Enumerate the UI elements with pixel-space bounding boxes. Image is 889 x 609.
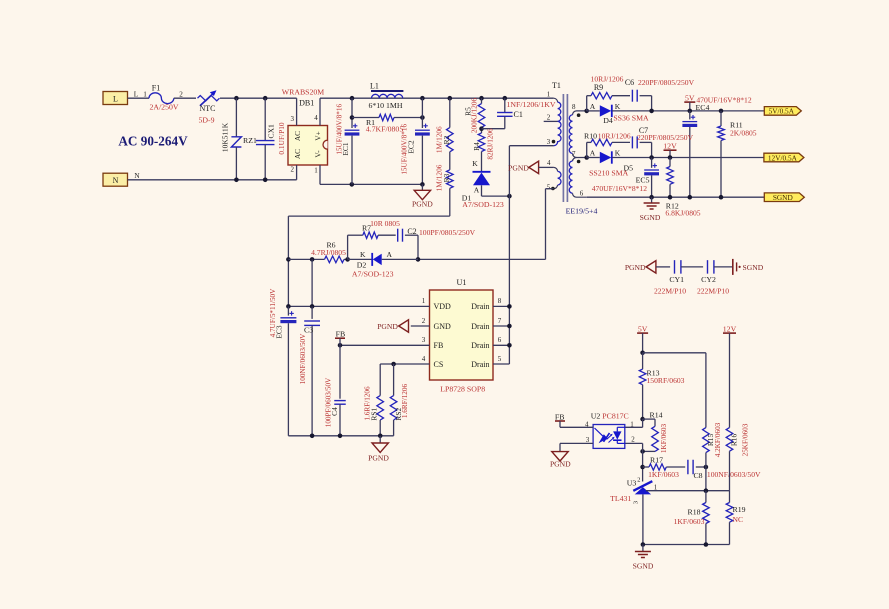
svg-text:0.1UF/P10: 0.1UF/P10	[277, 122, 286, 155]
svg-text:AC: AC	[293, 149, 302, 159]
svg-text:4: 4	[547, 159, 551, 167]
svg-text:R17: R17	[650, 455, 663, 464]
svg-text:1NF/1206/1KV: 1NF/1206/1KV	[507, 100, 556, 109]
svg-text:C1: C1	[514, 110, 523, 119]
svg-text:8: 8	[572, 103, 576, 111]
svg-text:Drain: Drain	[471, 341, 489, 350]
svg-text:25KF/0603: 25KF/0603	[741, 423, 749, 456]
svg-text:1KF/0603: 1KF/0603	[674, 517, 705, 526]
svg-text:2: 2	[631, 436, 635, 444]
svg-text:1KF/0603: 1KF/0603	[660, 424, 668, 454]
svg-text:AC: AC	[293, 131, 302, 141]
svg-text:10K511K: 10K511K	[221, 122, 230, 152]
svg-text:CS: CS	[434, 360, 444, 369]
svg-text:3: 3	[422, 336, 426, 344]
svg-text:R3: R3	[442, 173, 451, 182]
svg-text:150RF/0603: 150RF/0603	[647, 376, 685, 385]
svg-text:10RJ/1206: 10RJ/1206	[598, 132, 631, 141]
svg-text:A7/SOD-123: A7/SOD-123	[462, 200, 504, 209]
svg-text:222M/P10: 222M/P10	[697, 286, 729, 295]
svg-text:K: K	[472, 159, 478, 168]
svg-text:100NF/0603/50V: 100NF/0603/50V	[707, 470, 761, 479]
svg-text:SS36 SMA: SS36 SMA	[613, 113, 649, 122]
svg-text:2: 2	[179, 91, 183, 99]
svg-text:3: 3	[633, 501, 640, 504]
svg-text:VDD: VDD	[434, 302, 452, 311]
svg-text:1.6RF/1206: 1.6RF/1206	[364, 386, 372, 421]
svg-text:222M/P10: 222M/P10	[654, 286, 686, 295]
svg-text:6: 6	[498, 336, 502, 344]
svg-text:PGND: PGND	[625, 263, 646, 272]
svg-text:TL431: TL431	[610, 494, 631, 503]
svg-text:Drain: Drain	[471, 322, 489, 331]
svg-text:7: 7	[572, 150, 576, 158]
svg-text:R9: R9	[594, 83, 603, 92]
svg-text:R14: R14	[650, 410, 663, 419]
svg-text:4.7UF/5*11/50V: 4.7UF/5*11/50V	[269, 288, 277, 337]
svg-text:SS210 SMA: SS210 SMA	[589, 168, 629, 177]
svg-text:PGND: PGND	[550, 459, 571, 468]
svg-text:C8: C8	[693, 471, 702, 480]
svg-text:3: 3	[547, 138, 551, 146]
svg-text:1KF/0603: 1KF/0603	[648, 470, 679, 479]
svg-text:5V/0.5A: 5V/0.5A	[769, 107, 795, 116]
svg-text:12V/0.5A: 12V/0.5A	[768, 153, 798, 162]
svg-text:470UF/16V*8*12: 470UF/16V*8*12	[696, 96, 751, 105]
svg-text:4.7KF/0805: 4.7KF/0805	[366, 124, 404, 133]
svg-text:Drain: Drain	[471, 360, 489, 369]
svg-text:7: 7	[498, 317, 502, 325]
svg-text:WRABS20M: WRABS20M	[282, 87, 325, 96]
svg-text:PGND: PGND	[412, 200, 433, 209]
svg-text:A: A	[474, 186, 480, 195]
svg-text:L: L	[113, 94, 118, 103]
svg-text:5V: 5V	[638, 324, 648, 333]
svg-text:FB: FB	[555, 412, 565, 421]
svg-text:EE19/5+4: EE19/5+4	[566, 206, 598, 215]
svg-text:CY1: CY1	[669, 275, 684, 284]
svg-text:DB1: DB1	[299, 98, 314, 107]
svg-text:A: A	[387, 250, 393, 259]
svg-text:RZ1: RZ1	[243, 136, 257, 145]
svg-text:100PF/0603/50V: 100PF/0603/50V	[325, 377, 333, 427]
svg-text:4: 4	[314, 114, 318, 122]
svg-text:6.8KJ/0805: 6.8KJ/0805	[665, 208, 700, 217]
svg-text:V-: V-	[314, 150, 323, 158]
svg-text:K: K	[360, 250, 366, 259]
svg-text:C3: C3	[304, 325, 313, 334]
svg-text:1: 1	[314, 167, 318, 175]
svg-text:A: A	[590, 102, 596, 111]
svg-text:5V: 5V	[685, 93, 695, 102]
svg-text:2A/250V: 2A/250V	[149, 103, 178, 112]
svg-text:FB: FB	[434, 341, 444, 350]
svg-text:SGND: SGND	[633, 562, 654, 571]
svg-text:1: 1	[143, 91, 147, 99]
svg-text:6*10 1MH: 6*10 1MH	[368, 101, 402, 110]
svg-text:CY2: CY2	[701, 275, 716, 284]
svg-text:2: 2	[637, 477, 640, 484]
svg-text:LP8728 SOP8: LP8728 SOP8	[440, 385, 485, 394]
svg-text:U1: U1	[456, 278, 466, 287]
svg-text:PC817C: PC817C	[602, 412, 628, 421]
svg-text:4.7RJ/0805: 4.7RJ/0805	[311, 248, 346, 257]
svg-text:15UF/400V/8*16: 15UF/400V/8*16	[401, 124, 409, 175]
svg-text:3: 3	[290, 115, 294, 123]
svg-text:U2: U2	[591, 412, 601, 421]
svg-text:100PF/0805/250V: 100PF/0805/250V	[419, 228, 476, 237]
svg-text:5: 5	[547, 183, 551, 191]
svg-text:L1: L1	[370, 81, 379, 90]
svg-text:SGND: SGND	[743, 263, 764, 272]
svg-text:C6: C6	[625, 78, 634, 87]
svg-text:C2: C2	[407, 227, 416, 236]
svg-text:470UF/16V*8*12: 470UF/16V*8*12	[592, 184, 647, 193]
svg-text:K: K	[615, 102, 621, 111]
svg-text:15UF/400V/8*16: 15UF/400V/8*16	[336, 104, 344, 155]
svg-text:6: 6	[580, 189, 584, 197]
svg-text:220PF/0805/250V: 220PF/0805/250V	[638, 78, 695, 87]
svg-text:GND: GND	[434, 322, 452, 331]
svg-text:2: 2	[547, 113, 551, 121]
svg-text:8: 8	[498, 297, 502, 305]
svg-text:N: N	[113, 176, 119, 185]
svg-text:1.6RF/1206: 1.6RF/1206	[401, 384, 409, 419]
svg-text:AC 90-264V: AC 90-264V	[118, 134, 188, 149]
svg-text:Drain: Drain	[471, 302, 489, 311]
svg-text:PGND: PGND	[377, 322, 398, 331]
svg-text:2K/0805: 2K/0805	[730, 129, 757, 138]
svg-text:U3: U3	[627, 478, 637, 487]
svg-text:F1: F1	[152, 84, 160, 93]
svg-text:R18: R18	[688, 507, 701, 516]
svg-text:D4: D4	[603, 116, 613, 125]
svg-text:PGND: PGND	[508, 163, 529, 172]
svg-text:NC: NC	[733, 515, 744, 524]
svg-text:V+: V+	[314, 131, 323, 141]
svg-text:FB: FB	[336, 330, 346, 339]
svg-text:A: A	[590, 149, 596, 158]
svg-text:5D-9: 5D-9	[198, 115, 214, 124]
svg-text:D2: D2	[357, 261, 367, 270]
svg-text:A7/SOD-123: A7/SOD-123	[352, 269, 394, 278]
svg-text:200KJ/1206: 200KJ/1206	[470, 98, 478, 134]
svg-text:R4: R4	[472, 142, 481, 151]
svg-text:1: 1	[630, 420, 634, 428]
svg-text:K: K	[615, 149, 621, 158]
svg-text:10RJ/1206: 10RJ/1206	[591, 74, 624, 83]
svg-text:82RJ/1206: 82RJ/1206	[486, 128, 494, 160]
svg-text:12V: 12V	[663, 141, 677, 150]
svg-text:1: 1	[547, 91, 551, 99]
svg-text:R10: R10	[584, 132, 597, 141]
svg-text:SGND: SGND	[640, 213, 661, 222]
svg-text:T1: T1	[552, 81, 561, 90]
svg-text:N: N	[134, 172, 140, 180]
svg-text:4.2KF/0603: 4.2KF/0603	[714, 422, 722, 457]
svg-text:1: 1	[422, 297, 426, 305]
svg-text:PGND: PGND	[368, 453, 389, 462]
svg-text:L: L	[134, 91, 138, 99]
svg-text:2: 2	[422, 317, 426, 325]
svg-text:5: 5	[498, 355, 502, 363]
svg-text:100NF/0603/50V: 100NF/0603/50V	[299, 333, 307, 385]
svg-text:NTC: NTC	[200, 104, 216, 113]
svg-text:4: 4	[422, 355, 426, 363]
svg-text:12V: 12V	[723, 324, 737, 333]
svg-text:SGND: SGND	[773, 193, 793, 202]
svg-text:R16: R16	[729, 434, 738, 447]
svg-text:R19: R19	[733, 505, 746, 514]
svg-text:2: 2	[290, 166, 294, 174]
svg-text:R2: R2	[442, 135, 451, 144]
svg-text:CX1: CX1	[267, 124, 276, 139]
svg-text:10R 0805: 10R 0805	[370, 219, 400, 228]
